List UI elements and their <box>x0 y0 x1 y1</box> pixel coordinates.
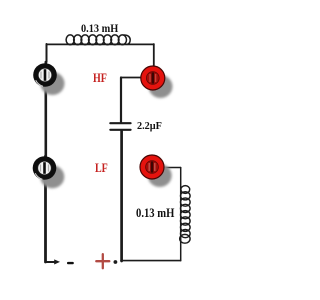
arrowhead <box>54 259 60 264</box>
wire right vertical <box>180 168 182 261</box>
inductor L1 coil (0.13 mH, top) <box>66 35 130 45</box>
wire bottom horizontal <box>121 260 181 262</box>
wire left vertical <box>46 44 48 62</box>
label 2.2uF <box>137 120 162 132</box>
binding post HF (red) <box>141 66 173 98</box>
label 0.13 mH (right) <box>136 206 174 221</box>
label HF <box>93 70 107 86</box>
wire capacitor branch lower <box>120 131 123 261</box>
label 0.13 mH (top) <box>81 21 118 36</box>
binding post LF (red) <box>140 155 172 187</box>
node dot at bottom of capacitor branch <box>114 260 118 264</box>
inductor L2 coil (0.13 mH, right vertical) <box>180 186 190 244</box>
capacitor C1 plates <box>110 122 130 124</box>
wire top horizontal <box>47 43 154 45</box>
plus sign <box>96 254 109 268</box>
binding post P2 (black, lower left) <box>33 156 65 188</box>
wire bottom-left stub with arrow <box>46 261 56 263</box>
label LF <box>95 160 108 176</box>
wire HF-to-capacitor horizontal <box>121 77 142 79</box>
minus sign <box>67 262 74 264</box>
wire LF-to-coil horizontal <box>165 167 181 169</box>
wire HF drop vertical <box>153 44 155 66</box>
binding post P1 (black, upper left) <box>33 63 64 95</box>
wire capacitor branch upper <box>120 78 122 123</box>
